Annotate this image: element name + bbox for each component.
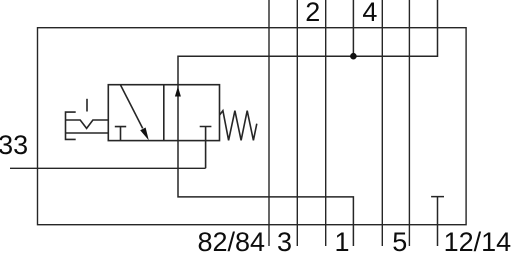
return spring: [220, 111, 257, 141]
svg-text:4: 4: [362, 0, 377, 27]
wire: main run from top x=437 down, across y=56, through valve at x=178, down, across y=197, down to port 1: [178, 0, 438, 246]
valve body (3/2 way valve, two position boxes): [108, 85, 219, 141]
svg-text:33: 33: [0, 130, 28, 160]
svg-text:5: 5: [392, 227, 407, 254]
right box blocked port T (to port 33): [200, 127, 212, 169]
actuator notched line (detent): [66, 120, 109, 128]
wire: vertical net line x=325 (port 2 column): [325, 0, 327, 246]
wire: vertical branch to port 4 (ends at junction): [352, 0, 354, 56]
wire: vertical net line x=268 (port 82/84 column): [268, 0, 270, 246]
junction dot node: [350, 53, 357, 60]
left box blocked port T: [115, 127, 126, 141]
wire: vertical net line x=409.6 (port 5 column): [408, 0, 410, 246]
svg-text:2: 2: [305, 0, 320, 27]
svg-text:3: 3: [277, 227, 292, 254]
svg-text:82/84: 82/84: [198, 227, 266, 254]
wire: vertical net line x=296.5 (port 3 column): [296, 0, 298, 246]
valve position divider: [163, 85, 165, 141]
actuator bracket (manual override): [66, 112, 76, 139]
detent pin tick: [86, 99, 88, 112]
diagonal arrow head (left box flow path): [140, 128, 149, 141]
actuator lower stem line: [66, 132, 109, 134]
svg-text:12/14: 12/14: [444, 227, 512, 254]
left box flow path arrow (diagonal): [120, 85, 142, 129]
svg-text:1: 1: [334, 227, 349, 254]
outer frame: [38, 28, 467, 225]
up arrow head (right box flow path): [175, 87, 181, 97]
blocked port 12/14 stub with end bar: [431, 197, 444, 246]
wire: port 33 line from left edge to valve: [10, 167, 206, 169]
wire: vertical net line x=382.8: [381, 0, 383, 246]
